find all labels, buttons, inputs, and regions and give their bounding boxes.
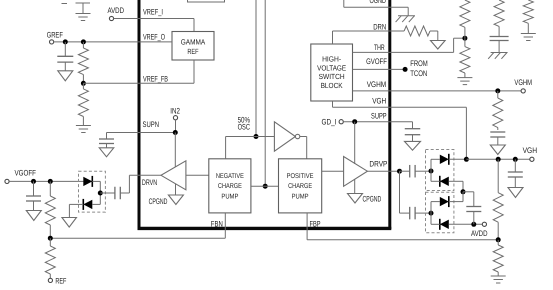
wire C11 to DRVN <box>120 175 129 193</box>
IC block right border <box>388 0 391 229</box>
svg-text:THR: THR <box>374 43 385 52</box>
wire fragment top-left <box>62 3 68 5</box>
ground arrow T4 CPGND right <box>348 194 382 204</box>
node T <box>429 211 434 216</box>
wire GD_I to SUPP <box>343 121 412 123</box>
diode D4 <box>431 176 449 187</box>
svg-text:AVDD: AVDD <box>471 229 488 238</box>
svg-text:PUMP: PUMP <box>292 193 309 200</box>
wire S to C6 <box>463 192 474 207</box>
wire D6 to AVDD <box>449 223 483 225</box>
wire D4 to S <box>449 181 463 192</box>
label 50% OSC <box>238 116 251 132</box>
pin label OGND clipped <box>370 0 387 5</box>
terminal GD_I <box>322 117 344 126</box>
svg-text:OSC: OSC <box>238 123 251 132</box>
svg-text:REF: REF <box>55 277 66 286</box>
svg-text:VGOFF: VGOFF <box>15 168 37 177</box>
diode box DB2 <box>426 192 454 233</box>
diode box DB1 <box>426 150 454 191</box>
node AVDD <box>471 222 476 227</box>
block GAMMA REF <box>172 32 214 61</box>
pin label THR <box>374 43 385 52</box>
box fragment top edge <box>188 0 225 2</box>
node REF divider <box>48 236 53 241</box>
svg-text:GAMMA: GAMMA <box>181 37 206 46</box>
capacitor C2 <box>99 133 114 144</box>
terminal AVDD left <box>108 6 125 20</box>
capacitor C1 <box>57 42 73 62</box>
wire P down <box>400 171 410 213</box>
svg-text:CPGND: CPGND <box>149 197 168 206</box>
pin label GVOFF <box>366 57 387 66</box>
pin label DRN <box>373 22 386 31</box>
node P DRVP <box>397 169 402 174</box>
wire DRVP input <box>322 170 344 172</box>
resistor R7 <box>460 38 470 77</box>
diode D6 <box>431 219 449 230</box>
node GREF-R <box>81 39 86 44</box>
wire GREF to VREF_O <box>54 41 172 43</box>
svg-text:GD_I: GD_I <box>322 117 337 126</box>
node pump mid <box>263 184 268 189</box>
wire D3 to VGH node <box>449 158 467 160</box>
wire inverter to pos pump <box>300 137 307 159</box>
block NEGATIVE CHARGE PUMP <box>209 159 251 213</box>
node VGOFF-R <box>48 179 53 184</box>
wire T branch <box>430 202 432 225</box>
ground arrow T8 <box>490 137 505 155</box>
wire DRN <box>333 31 405 44</box>
wire node to C11 <box>100 192 115 194</box>
wire C5 to T <box>415 212 431 214</box>
ground arrow T3 CPGND left <box>149 195 184 206</box>
ground arrow T6 <box>405 135 421 151</box>
node Q <box>429 169 434 174</box>
terminal VGH right <box>523 146 538 162</box>
wire DRVN input <box>186 174 209 176</box>
wire Q branch <box>430 159 432 181</box>
node osc <box>254 134 259 139</box>
node VGOFF-C <box>31 179 36 184</box>
node THR divider <box>462 36 467 41</box>
node VREF_FB <box>81 81 86 86</box>
wire C4 to Q <box>415 170 431 172</box>
wire to ground top-left <box>76 3 91 14</box>
diode D5 <box>431 196 449 207</box>
wire driver gnd <box>175 184 177 196</box>
wire D1 to node <box>92 181 100 204</box>
svg-text:VGHM: VGHM <box>514 78 532 87</box>
resistor R1 <box>78 42 88 83</box>
wire AVDD to VREF_I <box>114 19 194 32</box>
svg-text:GVOFF: GVOFF <box>366 57 387 66</box>
node R VGH <box>464 157 469 162</box>
node FROM TCON <box>403 67 408 72</box>
wire VGHM <box>353 90 522 92</box>
svg-text:FBP: FBP <box>310 220 321 229</box>
capacitor C10 <box>26 181 41 201</box>
resistor R5 <box>493 91 503 130</box>
node S <box>461 189 466 194</box>
wire DRVN output <box>129 174 161 176</box>
wire FBN <box>50 213 225 238</box>
svg-text:HIGH-: HIGH- <box>322 55 341 64</box>
ground arrow T5 <box>431 41 446 50</box>
node D-mid <box>98 191 103 196</box>
pin label VREF_I <box>143 8 163 17</box>
terminal AVDD right <box>471 222 488 238</box>
diode D3 <box>431 154 449 165</box>
svg-text:NEGATIVE: NEGATIVE <box>216 173 244 180</box>
wire D2 to gnd <box>69 204 83 217</box>
capacitor C11 <box>115 187 120 200</box>
node IN2-SUPN <box>173 130 178 135</box>
resistor R4 <box>493 240 503 276</box>
ground arrow T1 <box>58 62 73 81</box>
svg-text:AVDD: AVDD <box>108 6 125 15</box>
node VGH cap <box>513 157 518 162</box>
wire VGH node row <box>466 158 529 160</box>
IC block left border <box>138 0 141 229</box>
ground arrow T2 <box>99 144 114 157</box>
svg-text:PUMP: PUMP <box>221 193 238 200</box>
chassis ground GC1 <box>396 16 415 22</box>
capacitor C9 <box>490 37 509 41</box>
ground G4 <box>521 34 536 41</box>
wire DRN to gnd <box>430 31 438 41</box>
wire VGH <box>333 101 467 159</box>
diode D2 <box>83 199 100 210</box>
wire GVOFF <box>353 68 406 70</box>
wire osc line B <box>264 0 266 186</box>
svg-text:SWITCH: SWITCH <box>319 72 345 81</box>
svg-text:FROM: FROM <box>410 59 428 68</box>
svg-text:BLOCK: BLOCK <box>321 81 343 90</box>
resistor R9 <box>523 0 533 34</box>
pin label FBN <box>211 220 223 229</box>
wire VREF_FB <box>83 60 194 83</box>
svg-text:GREF: GREF <box>47 30 63 39</box>
svg-text:SUPN: SUPN <box>143 120 160 129</box>
resistor R6 <box>460 0 470 38</box>
svg-text:VGH: VGH <box>523 146 538 155</box>
node FBP <box>496 237 501 242</box>
resistor R8 <box>494 0 504 37</box>
wire pump to pump <box>251 185 279 187</box>
svg-text:TCON: TCON <box>410 69 427 78</box>
node VGH divider <box>496 157 501 162</box>
ground G1 <box>76 126 91 133</box>
terminal REF <box>48 277 66 286</box>
pin label FBP <box>310 220 321 229</box>
pin label VGH <box>372 96 386 105</box>
ground G3 <box>457 78 472 85</box>
resistor R2 <box>78 83 88 125</box>
wire OGND <box>344 0 408 16</box>
svg-text:VREF_I: VREF_I <box>143 8 163 17</box>
wire SUPN <box>107 132 176 134</box>
terminal VGOFF <box>5 168 36 183</box>
svg-text:IN2: IN2 <box>170 107 180 116</box>
wire osc to inverter <box>256 136 274 138</box>
capacitor C8 <box>490 132 505 137</box>
capacitor C3 <box>405 122 421 135</box>
pin label VREF_O <box>143 33 165 42</box>
resistor RH1 <box>404 26 430 36</box>
wire SUPN to driver <box>174 133 176 168</box>
wire osc line A <box>255 0 257 137</box>
resistor R11 <box>45 238 55 278</box>
terminal GREF <box>47 30 63 44</box>
capacitor C4 <box>400 165 416 178</box>
capacitor C5 <box>410 207 415 220</box>
block HIGH-VOLTAGE SWITCH BLOCK <box>311 44 353 101</box>
wire VGOFF <box>9 180 83 182</box>
svg-text:POSITIVE: POSITIVE <box>287 173 314 180</box>
svg-text:VREF_O: VREF_O <box>143 33 165 42</box>
wire FBP <box>307 213 498 240</box>
pin label VREF_FB <box>143 75 168 84</box>
pin label DRVP <box>369 160 387 169</box>
terminal VGHM right <box>514 78 532 93</box>
wire THR <box>353 38 465 52</box>
IC block bottom border <box>138 227 392 230</box>
svg-text:SUPP: SUPP <box>371 111 387 120</box>
svg-text:DRN: DRN <box>373 22 386 31</box>
block POSITIVE CHARGE PUMP <box>279 159 322 213</box>
wire GD_I to driver <box>354 122 356 164</box>
wire DRVP gnd <box>354 180 356 194</box>
inverter U2 <box>274 122 299 151</box>
svg-text:DRVP: DRVP <box>369 160 387 169</box>
capacitor C6 <box>466 207 481 225</box>
ground arrow T10 <box>62 218 76 228</box>
svg-text:VOLTAGE: VOLTAGE <box>317 63 346 72</box>
diode D1 <box>83 176 92 187</box>
node VGHM snub <box>495 88 500 93</box>
label FROM TCON <box>410 59 428 78</box>
svg-text:OGND: OGND <box>370 0 387 5</box>
svg-text:CPGND: CPGND <box>363 195 382 204</box>
svg-text:DRVN: DRVN <box>142 178 157 187</box>
ground G2 <box>491 276 506 283</box>
svg-text:REF: REF <box>187 47 199 56</box>
svg-text:CHARGE: CHARGE <box>218 183 242 190</box>
diode box DB3 <box>79 171 106 212</box>
pin label DRVN <box>142 178 157 187</box>
pin label SUPP <box>371 111 387 120</box>
resistor R10 <box>45 181 55 238</box>
node GD_I <box>352 119 357 124</box>
terminal IN2 <box>170 107 180 120</box>
capacitor C7 <box>508 159 523 177</box>
chassis ground GC2 <box>488 41 507 59</box>
svg-text:CHARGE: CHARGE <box>288 183 312 190</box>
svg-text:VGH: VGH <box>372 96 386 105</box>
wire IN2 stub <box>175 120 177 133</box>
svg-text:VGHM: VGHM <box>367 80 387 89</box>
wire D5 to S <box>449 192 463 202</box>
pin label SUPN <box>143 120 160 129</box>
resistor R3 <box>493 159 503 240</box>
op-amp DRVN driver <box>161 161 186 190</box>
node GREF-C <box>63 39 68 44</box>
ground arrow T7 <box>508 177 523 198</box>
ground arrow T9 <box>26 201 41 221</box>
wire osc to neg pump <box>226 137 256 159</box>
op-amp DRVP driver <box>344 157 368 187</box>
wire DRVP output <box>367 170 399 172</box>
svg-text:VREF_FB: VREF_FB <box>143 75 168 84</box>
pin label VGHM <box>367 80 387 89</box>
svg-text:FBN: FBN <box>211 220 223 229</box>
ground G0 <box>76 14 91 21</box>
